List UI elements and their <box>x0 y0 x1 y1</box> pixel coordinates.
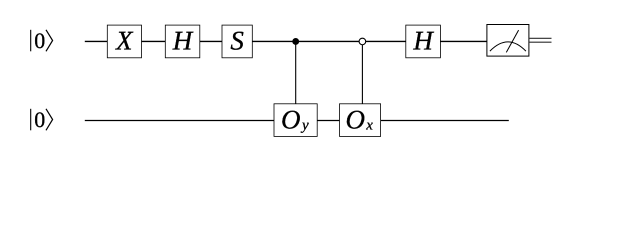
svg-text:X: X <box>115 25 134 55</box>
svg-text:y: y <box>300 118 309 134</box>
wire bottom: Oy to Ox <box>317 120 339 122</box>
wire top: S to H2 (through controls) <box>252 40 405 42</box>
wire top: X to H <box>142 40 166 42</box>
classical double wire after meter <box>529 38 552 42</box>
node q0 ket |0> (top left) <box>31 28 53 53</box>
svg-text:H: H <box>412 25 434 55</box>
wire bottom: Ox to end <box>381 120 509 122</box>
svg-text:O: O <box>346 104 366 134</box>
wire vertical: control to Oy <box>295 41 297 103</box>
measurement meter <box>487 25 529 57</box>
gate S <box>222 25 252 58</box>
control dot (filled) <box>292 38 299 45</box>
wire top: input to X <box>85 40 108 42</box>
wire top: H2 to meter <box>440 40 487 42</box>
wire top: H to S <box>200 40 222 42</box>
svg-text:O: O <box>281 104 301 134</box>
gate X <box>107 25 141 58</box>
gate Oy <box>274 104 317 137</box>
svg-text:0: 0 <box>34 28 45 53</box>
gate H (second) <box>406 25 441 58</box>
svg-text:0: 0 <box>34 107 45 132</box>
svg-text:H: H <box>172 25 194 55</box>
gate H (first) <box>165 25 200 58</box>
gate Ox <box>340 104 381 137</box>
wire vertical: open control to Ox <box>361 41 363 103</box>
svg-text:x: x <box>365 118 373 134</box>
svg-text:S: S <box>230 25 244 55</box>
wire bottom: input to Oy <box>85 120 274 122</box>
node q1 ket |0> (bottom left) <box>31 107 53 132</box>
control circle (open) <box>359 38 366 45</box>
